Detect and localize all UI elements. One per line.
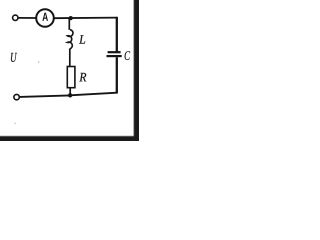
- label L: [79, 35, 85, 43]
- node top junction: [69, 16, 73, 20]
- wire inductor to resistor: [69, 48, 71, 66]
- resistor R: [67, 67, 75, 88]
- label R: [79, 73, 86, 82]
- frame border bottom (dark page edge): [0, 135, 139, 136]
- speck (paper noise): [38, 61, 39, 62]
- wire capacitor to bottom wire: [116, 57, 118, 93]
- node bottom junction: [68, 93, 72, 97]
- op ammeter PA1: [36, 9, 54, 27]
- wire ammeter to right corner: [54, 17, 117, 20]
- label C: [125, 51, 130, 60]
- wire T2 to bottom junction: [20, 95, 71, 97]
- capacitor C bottom plate: [107, 55, 122, 57]
- inductor L: [67, 30, 73, 49]
- capacitor C top plate: [108, 51, 121, 53]
- wire right branch upper (corner to capacitor): [116, 17, 118, 52]
- wire resistor to bottom junction: [69, 88, 71, 95]
- wire T1 to ammeter: [18, 17, 36, 19]
- label U (source voltage): [11, 53, 17, 62]
- terminal T2 (bottom-left input): [14, 94, 19, 99]
- speck (paper noise): [14, 123, 15, 124]
- wire junction down to inductor: [68, 18, 70, 30]
- terminal T1 (top-left input): [13, 15, 18, 20]
- wire bottom junction to right branch: [70, 93, 117, 96]
